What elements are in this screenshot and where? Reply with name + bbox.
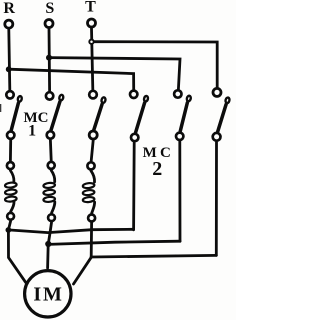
svg-text:1: 1	[28, 122, 36, 139]
svg-text:IM: IM	[33, 284, 63, 306]
svg-text:2: 2	[152, 158, 162, 180]
svg-text:S: S	[45, 0, 54, 17]
svg-text:R: R	[3, 0, 15, 17]
svg-text:T: T	[85, 0, 96, 16]
